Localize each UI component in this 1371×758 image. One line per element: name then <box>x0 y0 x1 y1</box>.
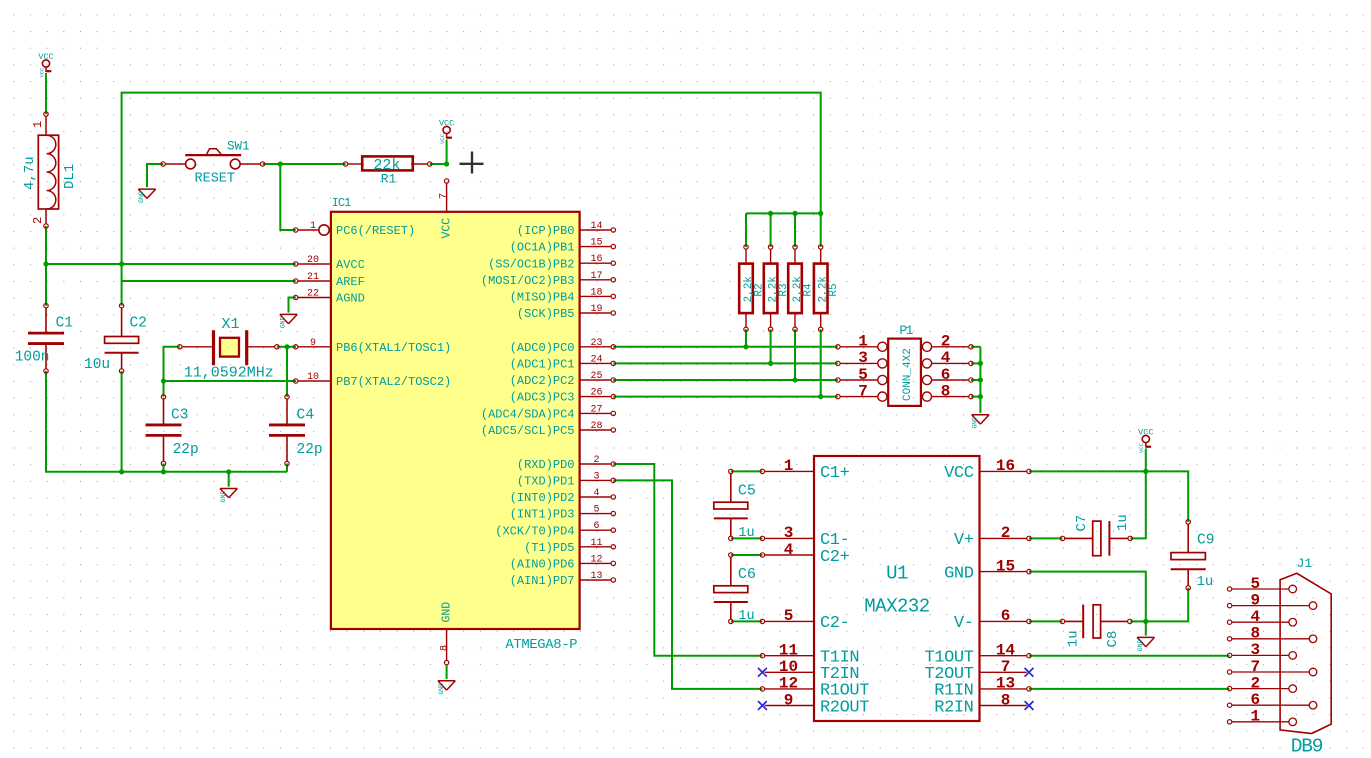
svg-text:13: 13 <box>590 571 602 582</box>
svg-text:4: 4 <box>941 349 951 367</box>
svg-text:(OC1A)PB1: (OC1A)PB1 <box>510 241 575 255</box>
svg-text:16: 16 <box>590 254 602 265</box>
svg-text:28: 28 <box>590 421 602 432</box>
svg-text:PB7(XTAL2/TOSC2): PB7(XTAL2/TOSC2) <box>336 375 451 389</box>
svg-text:1: 1 <box>784 457 794 475</box>
svg-text:2: 2 <box>1250 674 1260 692</box>
svg-text:21: 21 <box>307 272 319 283</box>
svg-text:(MOSI/OC2)PB3: (MOSI/OC2)PB3 <box>481 274 575 288</box>
svg-text:2: 2 <box>593 455 599 466</box>
svg-text:5: 5 <box>858 366 868 384</box>
svg-text:GND: GND <box>944 564 974 583</box>
svg-text:DB9: DB9 <box>1291 736 1323 758</box>
svg-text:C8: C8 <box>1105 631 1121 648</box>
svg-text:7: 7 <box>1001 658 1011 676</box>
svg-text:11,0592MHz: 11,0592MHz <box>184 365 274 382</box>
svg-text:R1: R1 <box>381 171 397 186</box>
svg-text:24: 24 <box>590 354 602 365</box>
svg-text:3: 3 <box>593 471 599 482</box>
svg-text:X1: X1 <box>222 316 240 333</box>
svg-text:4: 4 <box>1250 608 1260 626</box>
svg-text:2: 2 <box>1001 524 1011 542</box>
svg-text:1u: 1u <box>1065 630 1081 647</box>
svg-text:(ADC1)PC1: (ADC1)PC1 <box>510 358 575 372</box>
svg-text:6: 6 <box>1250 691 1260 709</box>
svg-text:3: 3 <box>1250 641 1260 659</box>
svg-text:C1+: C1+ <box>820 464 850 483</box>
svg-text:RESET: RESET <box>195 172 236 187</box>
svg-text:2: 2 <box>31 217 45 224</box>
svg-text:12: 12 <box>590 554 602 565</box>
svg-text:(AIN0)PD6: (AIN0)PD6 <box>510 558 575 572</box>
svg-text:27: 27 <box>590 404 602 415</box>
svg-text:GND: GND <box>441 602 454 623</box>
svg-text:20: 20 <box>307 255 319 266</box>
svg-text:(AIN1)PD7: (AIN1)PD7 <box>510 574 575 588</box>
svg-text:3: 3 <box>858 349 868 367</box>
svg-text:1u: 1u <box>1197 574 1214 590</box>
svg-text:C2+: C2+ <box>820 548 850 567</box>
svg-text:14: 14 <box>996 642 1016 660</box>
svg-text:(INT0)PD2: (INT0)PD2 <box>510 491 575 505</box>
svg-text:VCC: VCC <box>1138 428 1153 438</box>
svg-text:22p: 22p <box>297 442 323 458</box>
svg-text:VCC: VCC <box>441 218 454 239</box>
svg-text:5: 5 <box>784 607 794 625</box>
svg-text:(ADC2)PC2: (ADC2)PC2 <box>510 374 575 388</box>
svg-text:PB6(XTAL1/TOSC1): PB6(XTAL1/TOSC1) <box>336 341 451 355</box>
svg-text:ATMEGA8-P: ATMEGA8-P <box>505 638 577 653</box>
svg-text:C6: C6 <box>738 566 756 583</box>
svg-text:VCC: VCC <box>1138 442 1145 453</box>
svg-text:C1: C1 <box>56 316 73 332</box>
svg-text:4: 4 <box>784 541 794 559</box>
svg-text:8: 8 <box>440 645 451 651</box>
svg-text:23: 23 <box>590 338 602 349</box>
svg-text:GND: GND <box>972 417 979 429</box>
svg-text:1: 1 <box>1250 708 1260 726</box>
svg-text:16: 16 <box>996 457 1015 475</box>
svg-text:(XCK/T0)PD4: (XCK/T0)PD4 <box>495 524 574 538</box>
svg-text:SW1: SW1 <box>227 140 250 154</box>
svg-text:R2IN: R2IN <box>934 698 973 717</box>
svg-text:1: 1 <box>310 221 316 232</box>
svg-text:4,7u: 4,7u <box>22 156 38 190</box>
svg-text:10u: 10u <box>84 357 110 373</box>
svg-text:(ADC3)PC3: (ADC3)PC3 <box>510 391 575 405</box>
svg-text:11: 11 <box>590 538 602 549</box>
svg-text:6: 6 <box>1001 607 1011 625</box>
svg-text:22: 22 <box>307 289 319 300</box>
svg-text:V+: V+ <box>954 531 974 550</box>
svg-text:GND: GND <box>1137 639 1144 651</box>
svg-text:DL1: DL1 <box>62 164 78 189</box>
svg-text:22p: 22p <box>173 442 199 458</box>
svg-text:9: 9 <box>784 691 794 709</box>
svg-text:11: 11 <box>779 642 798 660</box>
svg-text:10: 10 <box>779 658 798 676</box>
svg-text:GND: GND <box>438 683 445 695</box>
svg-text:1u: 1u <box>1115 514 1131 531</box>
svg-text:1: 1 <box>858 333 868 351</box>
svg-text:C3: C3 <box>171 408 188 424</box>
svg-text:AVCC: AVCC <box>336 258 365 272</box>
svg-text:(ADC5/SCL)PC5: (ADC5/SCL)PC5 <box>481 424 575 438</box>
svg-text:AGND: AGND <box>336 292 365 306</box>
svg-text:VCC: VCC <box>439 119 454 129</box>
svg-text:(ADC4/SDA)PC4: (ADC4/SDA)PC4 <box>481 408 575 422</box>
svg-text:6: 6 <box>941 366 951 384</box>
svg-text:PC6(/RESET): PC6(/RESET) <box>336 224 415 238</box>
svg-text:MAX232: MAX232 <box>864 596 930 618</box>
svg-text:C2-: C2- <box>820 614 849 633</box>
svg-text:VCC: VCC <box>439 133 446 144</box>
svg-text:7: 7 <box>858 382 868 400</box>
svg-text:8: 8 <box>1001 691 1011 709</box>
svg-text:2: 2 <box>941 333 951 351</box>
svg-text:GND: GND <box>220 491 227 503</box>
svg-text:8: 8 <box>1250 625 1260 643</box>
svg-text:5: 5 <box>1250 575 1260 593</box>
svg-text:12: 12 <box>779 675 798 693</box>
svg-text:C2: C2 <box>130 316 147 332</box>
svg-text:(T1)PD5: (T1)PD5 <box>524 541 574 555</box>
svg-text:VCC: VCC <box>38 67 45 78</box>
svg-text:19: 19 <box>590 304 602 315</box>
svg-text:1u: 1u <box>738 609 754 624</box>
svg-text:AREF: AREF <box>336 275 365 289</box>
svg-text:15: 15 <box>996 557 1015 575</box>
svg-text:1: 1 <box>31 121 45 128</box>
svg-text:15: 15 <box>590 238 602 249</box>
svg-text:VCC: VCC <box>38 52 53 62</box>
svg-text:(SS/OC1B)PB2: (SS/OC1B)PB2 <box>488 257 574 271</box>
svg-text:6: 6 <box>593 521 599 532</box>
svg-text:4: 4 <box>593 488 599 499</box>
svg-text:7: 7 <box>1250 658 1260 676</box>
svg-text:1u: 1u <box>738 526 754 541</box>
svg-text:GND: GND <box>138 191 145 203</box>
svg-text:U1: U1 <box>886 563 908 585</box>
svg-text:(INT1)PD3: (INT1)PD3 <box>510 508 575 522</box>
svg-text:C5: C5 <box>738 483 756 500</box>
svg-text:25: 25 <box>590 371 602 382</box>
svg-text:J1: J1 <box>1297 556 1313 571</box>
svg-text:26: 26 <box>590 388 602 399</box>
svg-text:C9: C9 <box>1197 533 1214 549</box>
svg-text:8: 8 <box>941 382 951 400</box>
svg-text:(SCK)PB5: (SCK)PB5 <box>517 307 575 321</box>
svg-text:(ADC0)PC0: (ADC0)PC0 <box>510 341 575 355</box>
svg-text:14: 14 <box>590 221 602 232</box>
svg-text:9: 9 <box>310 338 316 349</box>
svg-text:CONN_4X2: CONN_4X2 <box>902 348 914 401</box>
svg-text:100n: 100n <box>15 350 50 366</box>
svg-text:P1: P1 <box>899 323 913 338</box>
svg-text:C7: C7 <box>1074 515 1090 532</box>
svg-text:10: 10 <box>307 372 319 383</box>
svg-text:13: 13 <box>996 675 1015 693</box>
svg-text:3: 3 <box>784 524 794 542</box>
svg-text:(RXD)PD0: (RXD)PD0 <box>517 458 575 472</box>
svg-text:V-: V- <box>954 614 974 633</box>
svg-text:5: 5 <box>593 505 599 516</box>
svg-text:(MISO)PB4: (MISO)PB4 <box>510 291 575 305</box>
svg-text:GND: GND <box>280 316 287 328</box>
svg-text:R5: R5 <box>828 283 840 296</box>
svg-text:(TXD)PD1: (TXD)PD1 <box>517 475 575 489</box>
svg-text:C4: C4 <box>297 408 314 424</box>
svg-text:IC1: IC1 <box>332 196 351 210</box>
svg-text:(ICP)PB0: (ICP)PB0 <box>517 224 575 238</box>
svg-text:R2OUT: R2OUT <box>820 698 869 717</box>
svg-text:9: 9 <box>1250 591 1260 609</box>
svg-text:17: 17 <box>590 271 602 282</box>
svg-text:7: 7 <box>438 193 449 199</box>
svg-text:18: 18 <box>590 287 602 298</box>
svg-text:VCC: VCC <box>944 464 974 483</box>
